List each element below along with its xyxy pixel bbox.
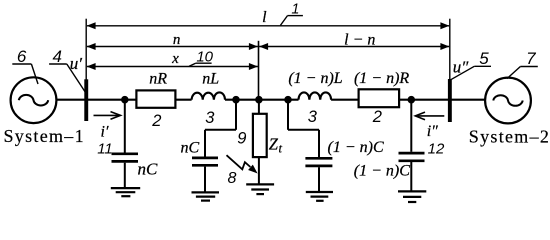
extension line above right bus — [449, 19, 451, 79]
ground ((1-n)C right) — [398, 191, 426, 202]
wire: (1-n)R to right bus to right source — [399, 99, 485, 101]
wire: capacitor to ground (left) — [124, 163, 126, 188]
wire: capacitor to ground (right) — [410, 162, 412, 191]
wire: horizontal bend to nC (mid) — [205, 129, 236, 131]
wire: nL to coil (1-n)L — [225, 99, 299, 101]
svg-text:(1 − n)C: (1 − n)C — [354, 162, 410, 179]
svg-text:x: x — [171, 51, 179, 67]
node junction at left shunt — [121, 96, 129, 104]
ground (mid nC) — [192, 192, 220, 200]
svg-text:11: 11 — [97, 141, 113, 158]
wire: right node to capacitor (1-n)C (right) — [410, 100, 412, 152]
svg-text:3: 3 — [205, 109, 215, 127]
wire: node after nL down — [235, 100, 237, 130]
source G2 (System-2 generator circle) — [485, 78, 531, 124]
node junction before (1-n)L — [284, 96, 292, 104]
wire: Zt to ground — [258, 157, 260, 184]
svg-text:u′: u′ — [70, 54, 83, 73]
dimension l (line + arrows) — [87, 22, 450, 29]
resistor nR — [136, 90, 175, 107]
label 10 with leader — [189, 48, 214, 66]
label 6 with leader to left source — [12, 47, 38, 84]
wire: (1-n)L to resistor (1-n)R — [331, 99, 359, 101]
svg-text:u″: u″ — [453, 58, 470, 77]
svg-text:2: 2 — [151, 112, 161, 130]
svg-text:nC: nC — [138, 160, 159, 179]
svg-text:l: l — [262, 9, 267, 26]
ground (left nC) — [111, 188, 140, 196]
svg-text:2: 2 — [372, 108, 382, 126]
wire: node to capacitor nC (left) — [124, 100, 126, 153]
wire: capacitor to ground (mid right) — [318, 167, 320, 192]
svg-text:n: n — [173, 32, 181, 48]
wire: left source to bus to resistor nR — [56, 99, 136, 101]
svg-text:(1 − n)R: (1 − n)R — [354, 70, 409, 87]
svg-text:l − n: l − n — [344, 32, 375, 49]
svg-text:4: 4 — [52, 47, 61, 66]
capacitor nC (mid shunt) — [192, 158, 218, 165]
resistor (1-n)R — [359, 89, 400, 107]
svg-text:i′: i′ — [101, 123, 109, 140]
node junction at fault branch — [255, 96, 263, 104]
fault lightning arrow 8 — [227, 155, 258, 173]
wire: nR to coil nL — [175, 99, 191, 101]
svg-text:nL: nL — [202, 71, 219, 88]
capacitor (1-n)C (mid shunt) — [305, 158, 332, 166]
label 5 with leader to right bus — [451, 49, 491, 80]
svg-text:6: 6 — [17, 47, 27, 66]
svg-text:nC: nC — [181, 139, 200, 156]
source G1 (System-1 generator circle) — [11, 77, 57, 123]
bus bar 5 (right, System-2) — [448, 79, 452, 122]
svg-text:(1 − n)L: (1 − n)L — [288, 70, 342, 87]
bus bar 4 (left, System-1) — [84, 79, 88, 121]
current arrow i' — [94, 112, 121, 120]
svg-text:nR: nR — [149, 71, 167, 88]
wire: down to capacitor nC (mid) — [204, 130, 206, 157]
capacitor nC (left shunt) — [112, 154, 139, 162]
svg-text:(1 − n)C: (1 − n)C — [328, 139, 384, 156]
label 4 with leader to left bus — [49, 47, 85, 92]
extension line above left bus — [85, 19, 87, 80]
svg-text:12: 12 — [428, 140, 445, 157]
dimension l-n (line + arrows) — [259, 43, 449, 50]
ground ((1-n)C mid) — [306, 192, 333, 201]
label 1 with leader — [280, 1, 303, 25]
svg-text:i″: i″ — [427, 123, 438, 140]
svg-text:3: 3 — [308, 108, 318, 126]
ground (fault Zt) — [246, 184, 274, 194]
label 7 with leader to right source — [507, 49, 538, 79]
inductor (1-n)L — [299, 92, 332, 99]
svg-text:9: 9 — [237, 130, 246, 148]
svg-text:8: 8 — [228, 170, 237, 187]
svg-text:System–2: System–2 — [469, 126, 550, 146]
wire: down to capacitor (1-n)C (mid) — [318, 130, 320, 157]
current arrow i'' — [415, 112, 444, 120]
fault impedance Zt — [253, 114, 267, 157]
wire: fault node to Zt — [258, 100, 260, 114]
node junction at right shunt — [408, 96, 416, 104]
tick line at fault position (n / l-n boundary) — [258, 41, 260, 100]
dimension x (line + arrows) — [87, 63, 258, 70]
wire: node before (1-n)L down — [287, 100, 289, 130]
capacitor (1-n)C (right shunt) — [399, 153, 425, 161]
node junction after nL — [232, 96, 240, 104]
svg-text:System–1: System–1 — [4, 126, 85, 146]
svg-text:5: 5 — [479, 49, 489, 68]
svg-text:7: 7 — [526, 49, 536, 68]
dimension n (line + arrows) — [87, 43, 258, 50]
wire: capacitor to ground (mid) — [204, 167, 206, 193]
inductor nL — [192, 92, 225, 99]
wire: horizontal bend to (1-n)C (mid) — [288, 129, 319, 131]
